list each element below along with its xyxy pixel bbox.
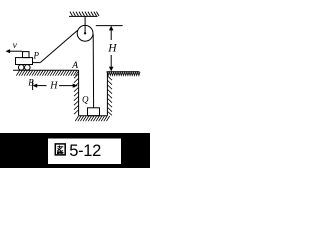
- cart drawbar: [33, 62, 41, 64]
- H dim tick line top right: [96, 25, 123, 27]
- pit right wall: [106, 72, 108, 116]
- cart body: [16, 58, 33, 65]
- svg-text:5-12: 5-12: [69, 142, 101, 160]
- cart wheel left: [18, 65, 24, 71]
- cart wheel right: [25, 65, 31, 71]
- B dim shaft right: [59, 85, 77, 87]
- rope from pulley down to Q: [92, 35, 94, 109]
- pulley support rod: [84, 16, 86, 33]
- B dim right arrowhead: [73, 84, 78, 88]
- pulley hub: [84, 32, 86, 34]
- pulley wheel: [77, 25, 93, 41]
- H dim up arrowhead: [109, 26, 114, 31]
- H dim up arrow shaft: [110, 27, 112, 40]
- v arrowhead: [6, 49, 11, 53]
- svg-text:A: A: [71, 61, 78, 71]
- rope from cart to pulley: [40, 30, 77, 62]
- cart cab: [23, 52, 30, 58]
- left ground hatch: [16, 71, 79, 76]
- B dim tick: [32, 81, 34, 91]
- B dim shaft left: [37, 85, 47, 87]
- svg-text:Q: Q: [82, 95, 89, 105]
- left ground line: [13, 69, 79, 71]
- right ground line: [107, 71, 140, 73]
- svg-text:v: v: [13, 41, 18, 51]
- caption glyph 图: [55, 144, 65, 155]
- caption white box: [48, 139, 121, 165]
- ceiling line: [69, 15, 98, 17]
- right ground zigzag hatch: [107, 72, 140, 75]
- H dim down arrowhead: [109, 67, 114, 72]
- ceiling hatch: [70, 12, 99, 16]
- pit bottom: [79, 115, 108, 117]
- svg-text:P: P: [33, 50, 40, 60]
- svg-text:B: B: [28, 78, 34, 88]
- H dim down arrow shaft: [110, 55, 112, 71]
- B dim left arrowhead: [33, 84, 38, 88]
- pit left wall hatch: [74, 74, 78, 114]
- svg-text:H: H: [107, 43, 117, 55]
- pit bottom hatch: [75, 116, 110, 121]
- Q block: [88, 108, 100, 116]
- pit left wall: [78, 70, 80, 116]
- v arrow shaft: [7, 50, 22, 52]
- caption black band: [0, 133, 150, 168]
- svg-text:H: H: [49, 81, 58, 92]
- pit right wall hatch: [108, 76, 112, 115]
